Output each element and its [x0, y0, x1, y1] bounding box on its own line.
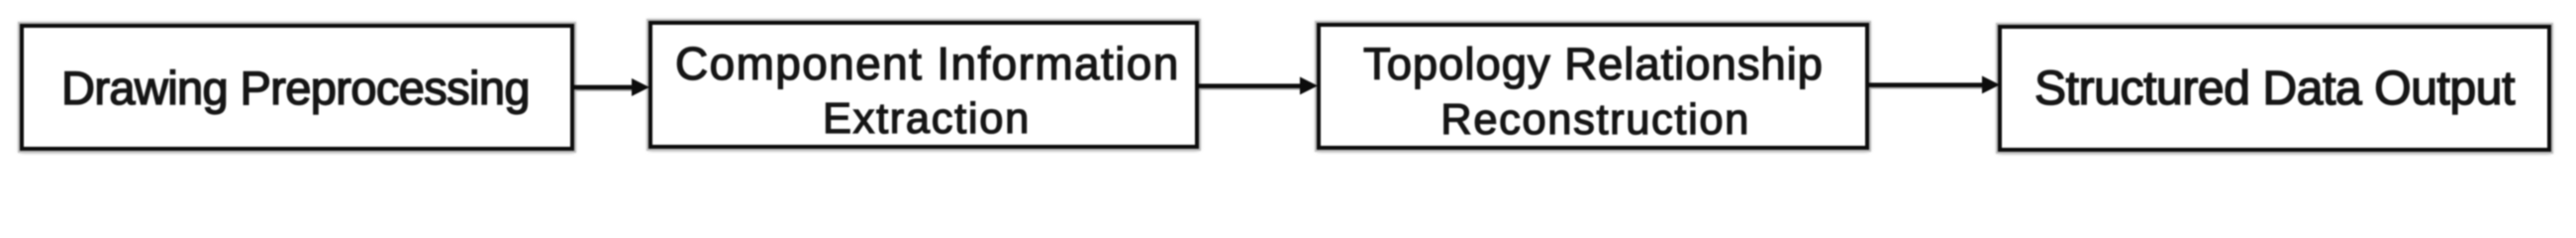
box 2: Component Information Extraction [648, 21, 1199, 149]
arrow 1: box1 to box2 [574, 78, 649, 96]
label: Extraction [823, 98, 1031, 142]
label: Drawing Preprocessing [61, 64, 530, 111]
label: Component Information [675, 41, 1180, 86]
label: Reconstruction [1440, 99, 1750, 143]
arrow 2: box2 to box3 [1199, 77, 1318, 95]
arrow 3: box3 to box4 [1869, 76, 2000, 94]
label: Structured Data Output [2034, 65, 2515, 113]
arrows svg layer [0, 0, 2576, 177]
box 4: Structured Data Output [1998, 25, 2551, 152]
label: Topology Relationship [1363, 42, 1824, 87]
box 1: Drawing Preprocessing [20, 24, 574, 151]
box 3: Topology Relationship Reconstruction [1317, 23, 1869, 150]
